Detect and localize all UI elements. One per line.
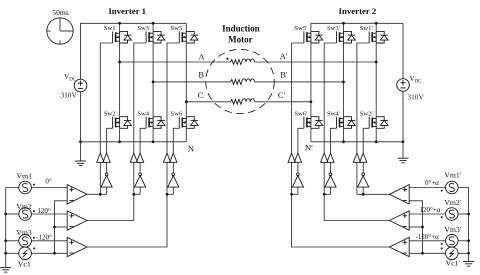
wire: Sw1' gate lead (357, 43, 369, 153)
DC source VDC left (74, 79, 87, 92)
wire: comparator U1 output to leg A tap (87, 193, 100, 195)
wire: Sw5' gate lead (292, 43, 304, 153)
node: carrier bus left at U2 minus (53, 226, 56, 229)
comparator U1 left (67, 185, 87, 204)
wire: leg A driver input and NOT connections (99, 162, 101, 194)
ground bottom-right (463, 262, 474, 267)
node: tap leg B' (323, 193, 326, 196)
wire: Vc1 to carrier bus and comparator minus inputs (31, 252, 67, 254)
polarity dot Vm3 (33, 237, 35, 239)
svg-text:310V: 310V (408, 93, 425, 102)
svg-text:N′: N′ (305, 142, 313, 152)
svg-text:Sw5′: Sw5′ (294, 25, 308, 32)
node C (185, 100, 188, 103)
wire: inverter 2 N' rail (311, 141, 403, 143)
wire: VDC right negative lead down to N' rail and ground (402, 91, 404, 158)
node: tap leg B (132, 193, 135, 196)
transistor Sw3 (146, 31, 165, 43)
transistor Sw2 (113, 117, 132, 129)
wire: leg C' driver input and NOT connections (291, 162, 293, 194)
source Vm3 (19, 235, 32, 248)
svg-text:310V: 310V (61, 91, 78, 100)
wire: Sw3 gate lead (134, 43, 146, 153)
node: top bus Sw3' drain (342, 22, 345, 25)
wire: Sw5 gate lead (167, 43, 179, 153)
svg-text:-120°: -120° (36, 234, 52, 242)
winding phase A (231, 59, 255, 65)
source Vc1' carrier (446, 247, 459, 260)
svg-text:Vm2′: Vm2′ (444, 198, 462, 207)
svg-text:120°+α: 120°+α (420, 206, 441, 214)
wire: leg A' vertical (inverter 2) (375, 23, 377, 31)
comparator U3 left (67, 237, 87, 256)
node C' (310, 100, 313, 103)
wire: Sw4' gate lead (331, 128, 337, 153)
node: left bus Vm3 (4, 239, 7, 242)
comparator U3' right (389, 237, 409, 256)
node: N' rail leg B' (342, 140, 345, 143)
driver pair leg A (97, 153, 111, 162)
svg-text:C′: C′ (278, 91, 286, 100)
source Vm3' (446, 235, 459, 248)
node: top bus Sw1 drain (118, 22, 121, 25)
polarity dot Vm2 (33, 210, 35, 212)
DC source VDC right (397, 79, 410, 92)
wire: Vm2' to comparator U2' plus input (409, 213, 445, 215)
wire: Vm3' to comparator U3' plus input (409, 240, 445, 242)
svg-text:-120°+α: -120°+α (416, 233, 440, 241)
wire: comparator U2 output riser to leg B tap (87, 194, 134, 220)
node: left bus Vm2 (4, 213, 7, 216)
wire: Sw6 gate lead (173, 128, 179, 153)
wire: leg B vertical (inverter 1) (152, 23, 154, 31)
wire: Vm1 to comparator U1 plus input (31, 187, 67, 189)
source Vc1 carrier (19, 247, 32, 260)
svg-text:Sw6: Sw6 (171, 110, 183, 117)
wire: leg A' driver input and NOT connections (356, 162, 358, 194)
polarity dot Vc1' (441, 247, 443, 249)
node: top bus Sw3 drain (152, 22, 155, 25)
NOT gate leg B' (325, 173, 336, 187)
wire: VDC left negative lead down to N rail and ground (80, 92, 82, 162)
wire: Vm2 to comparator U2 plus input (31, 213, 67, 215)
wire: Vc1' to carrier bus and comparator minus inputs (409, 252, 445, 254)
NOT gate leg C' (292, 173, 303, 187)
svg-text:Sw2: Sw2 (104, 110, 116, 117)
wire: inverter 1 top DC bus (81, 23, 187, 79)
wire: comparator U3 output riser to leg C tap (87, 194, 167, 247)
node: N' rail at VDC' (402, 140, 405, 143)
svg-text:Sw2′: Sw2′ (360, 110, 374, 117)
source Vm2 (19, 208, 32, 221)
transistor Sw6' (304, 117, 323, 129)
node A' (375, 61, 378, 64)
source Vm2' (446, 208, 459, 221)
ground bottom-left (0, 268, 11, 273)
driver pair leg C' (288, 153, 302, 162)
transistor Sw5' (304, 31, 323, 43)
wire: Sw2' gate lead (363, 128, 369, 153)
node: right bus Vc1' (467, 252, 470, 255)
svg-text:120°: 120° (37, 207, 51, 215)
driver pair leg C (163, 153, 177, 162)
svg-text:VDC: VDC (64, 73, 76, 82)
svg-text:VDC: VDC (410, 75, 422, 84)
wire: phase B line (153, 81, 230, 83)
transistor Sw4 (146, 117, 165, 129)
svg-text:N: N (188, 143, 195, 153)
node A (118, 61, 121, 64)
svg-text:Vm3′: Vm3′ (444, 225, 462, 234)
wire: inverter 2 top DC bus (311, 23, 403, 79)
svg-text:Sw5: Sw5 (171, 25, 183, 32)
wire: Sw3' gate lead (324, 43, 336, 153)
node: tap leg A (99, 193, 102, 196)
wire: phase A line (120, 61, 231, 63)
polarity dot Vc1 (33, 247, 35, 249)
wire: leg C driver input and NOT connections (166, 162, 168, 194)
wire: Sw6' gate lead (298, 128, 304, 153)
wire: leg C' vertical (inverter 2) (310, 43, 312, 117)
NOT gate leg B (135, 173, 146, 187)
clock timer symbol (47, 18, 73, 44)
comparator U2 left (67, 211, 87, 230)
wire: Sw1 gate lead (100, 43, 112, 153)
wire: leg B driver input and NOT connections (133, 162, 135, 194)
svg-text:B′: B′ (280, 70, 288, 79)
svg-text:Sw4: Sw4 (137, 110, 149, 117)
ground under VDC right (398, 158, 409, 163)
polarity dot Vm1 (33, 184, 35, 186)
winding phase B (231, 79, 255, 85)
svg-text:Sw4′: Sw4′ (327, 110, 341, 117)
source Vm1' (446, 181, 459, 194)
wire: phase C line (186, 101, 230, 103)
motor polarity dot (226, 58, 228, 60)
wire: left source common bus to ground (6, 188, 19, 268)
driver pair leg B' (321, 153, 335, 162)
wire: comparator U3' output riser to leg C' tap (292, 194, 390, 247)
node: tap leg A' (362, 193, 365, 196)
transistor Sw3' (337, 31, 356, 43)
node: left bus Vc1 (4, 252, 7, 255)
svg-text:Sw3: Sw3 (137, 25, 149, 32)
transistor Sw4' (337, 117, 356, 129)
node: N rail leg A (118, 140, 121, 143)
wire: comparator U2' output riser to leg B' tap (324, 194, 389, 220)
polarity dot Vm2' (441, 216, 443, 218)
ground under VDC left (75, 161, 86, 166)
svg-text:0°+α: 0°+α (425, 179, 439, 187)
node: tap leg C' (290, 193, 293, 196)
NOT gate leg A' (358, 173, 369, 187)
wire: comparator U1' output to leg A' tap (363, 193, 389, 195)
node: right bus Vm2' (467, 213, 470, 216)
wire: Sw4 gate lead (140, 128, 146, 153)
svg-text:B: B (198, 70, 204, 79)
transistor Sw2' (369, 117, 388, 129)
svg-text:Vm2: Vm2 (16, 202, 32, 211)
source Vm1 (19, 181, 32, 194)
svg-text:Motor: Motor (228, 34, 253, 44)
transistor Sw1 (113, 31, 132, 43)
transistor Sw1' (369, 31, 388, 43)
node: N rail leg B (152, 140, 155, 143)
svg-text:Sw6′: Sw6′ (294, 110, 308, 117)
transistor Sw5 (179, 31, 198, 43)
svg-text:0°: 0° (45, 178, 52, 186)
driver pair leg A' (353, 153, 367, 162)
node: right bus Vm3' (467, 239, 470, 242)
transistor Sw6 (179, 117, 198, 129)
svg-text:Inverter 2: Inverter 2 (339, 6, 377, 16)
comparator U1' right (389, 185, 409, 204)
wire: Vm1' to comparator U1' plus input (409, 187, 445, 189)
wire: leg C vertical (inverter 1) (185, 23, 187, 31)
svg-text:Sw1′: Sw1′ (360, 25, 374, 32)
node: carrier bus right at U2' minus (421, 226, 424, 229)
wire: Vm3 to comparator U3 plus input (31, 240, 67, 242)
node: carrier bus right at Vc1' (421, 252, 424, 255)
node: N' rail leg A' (375, 140, 378, 143)
svg-text:Sw1: Sw1 (104, 25, 116, 32)
wire: leg A vertical (inverter 1) (119, 23, 121, 31)
driver pair leg B (130, 153, 144, 162)
svg-text:Vm1: Vm1 (16, 171, 32, 180)
induction motor dashed circle (206, 49, 275, 113)
NOT gate leg A (101, 173, 112, 187)
wire: right source common bus to ground (458, 188, 469, 262)
svg-text:A′: A′ (280, 52, 288, 61)
node: carrier bus left at Vc1 (53, 252, 56, 255)
wire: leg B' driver input and NOT connections (323, 162, 325, 194)
NOT gate leg C (168, 173, 179, 187)
wire: inverter 1 N rail (81, 141, 187, 143)
wire: Sw2 gate lead (107, 128, 113, 153)
svg-text:Vm1′: Vm1′ (444, 171, 462, 180)
polarity dot Vm3' (441, 243, 443, 245)
polarity dot Vm1' (441, 190, 443, 192)
svg-text:Vc1: Vc1 (18, 260, 31, 269)
svg-text:A: A (198, 52, 204, 61)
node: tap leg C (166, 193, 169, 196)
svg-text:Inverter 1: Inverter 1 (108, 6, 146, 16)
svg-text:Sw3′: Sw3′ (327, 25, 341, 32)
node: top bus Sw1' drain (375, 22, 378, 25)
node B' (342, 81, 345, 84)
svg-text:C: C (198, 91, 204, 100)
wire: leg B' vertical (inverter 2) (343, 23, 345, 31)
node: N rail at VDC (79, 140, 82, 143)
comparator U2' right (389, 211, 409, 230)
node B (152, 81, 155, 84)
winding phase C (231, 99, 255, 105)
svg-text:Vm3: Vm3 (16, 228, 32, 237)
svg-text:Induction: Induction (222, 24, 260, 34)
svg-text:Vc1′: Vc1′ (446, 258, 461, 267)
svg-text:50ms: 50ms (52, 8, 69, 17)
